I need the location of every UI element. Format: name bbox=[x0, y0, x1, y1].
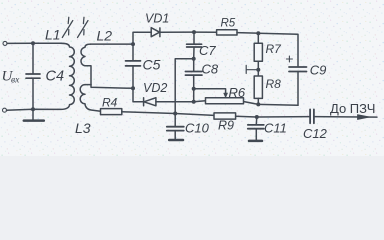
terminal bottom-left bbox=[3, 108, 7, 112]
capacitor C5 bbox=[132, 44, 134, 60]
rail R9 to C11 node bbox=[236, 115, 257, 118]
terminal top-left bbox=[3, 41, 7, 45]
junction R8 bottom / R6 right / C9 bottom bbox=[256, 102, 260, 106]
wire bottom input bbox=[7, 109, 59, 110]
output wire with arrow bbox=[314, 116, 377, 119]
junction VD2 cathode wire / R6 left bbox=[192, 100, 196, 104]
junction L2 top / C5 / VD1 bbox=[131, 42, 135, 46]
resistor R9 bbox=[214, 113, 236, 119]
svg-text:C11: C11 bbox=[264, 120, 287, 135]
svg-text:VD2: VD2 bbox=[143, 81, 167, 95]
tuning arrow 1 bbox=[62, 17, 73, 37]
junction C4 bottom / ground rail bbox=[31, 107, 35, 111]
wire L2 top to node bbox=[91, 43, 134, 45]
junction C7 / C8 midpoint bbox=[192, 57, 196, 61]
svg-text:R5: R5 bbox=[221, 18, 236, 30]
wire VD2 anode to node bbox=[156, 101, 194, 103]
inductor L3 bbox=[80, 85, 100, 112]
junction bottom rail / C11 bbox=[255, 115, 259, 119]
potentiometer R6 bbox=[206, 98, 244, 104]
junction C4 top / input rail bbox=[31, 41, 35, 45]
svg-text:R7: R7 bbox=[266, 42, 283, 56]
diode VD2 bbox=[143, 98, 145, 106]
wire top input bbox=[7, 42, 60, 44]
ground under C10 bbox=[169, 139, 183, 142]
resistor R7 bbox=[257, 33, 259, 43]
capacitor C11 bbox=[255, 117, 258, 124]
svg-text:L3: L3 bbox=[75, 120, 91, 136]
svg-text:C8: C8 bbox=[202, 62, 219, 77]
resistor R4 bbox=[101, 109, 122, 115]
bottom rail R4 to C10 node bbox=[122, 112, 175, 114]
wire C5 node down to VD2 bbox=[133, 88, 144, 102]
svg-text:C10: C10 bbox=[185, 120, 210, 135]
diode VD1 bbox=[151, 28, 159, 37]
svg-text:L1: L1 bbox=[45, 27, 61, 43]
svg-text:C5: C5 bbox=[143, 57, 161, 73]
junction VD1 cathode / C7 top / R5 left bbox=[192, 30, 196, 34]
inductor L1 bbox=[58, 43, 74, 109]
wire C7/C8 node left and down bbox=[175, 59, 194, 114]
ground bbox=[32, 109, 34, 119]
tuning arrow 2 bbox=[78, 17, 89, 37]
svg-text:R8: R8 bbox=[266, 77, 282, 91]
resistor R5 bbox=[217, 30, 237, 35]
resistor R8 bbox=[254, 76, 262, 98]
stub with bar at R7/R8 node bbox=[246, 65, 258, 73]
junction R5 right / R7 top bbox=[256, 31, 260, 35]
capacitor C7 bbox=[193, 32, 195, 43]
wire L3 top tap bbox=[85, 84, 91, 86]
svg-text:R6: R6 bbox=[229, 85, 246, 100]
wire to R6 right bbox=[244, 102, 258, 105]
capacitor C12 bbox=[310, 109, 314, 123]
svg-text:R9: R9 bbox=[218, 119, 234, 133]
wire VD1 to C7 node bbox=[160, 31, 217, 33]
capacitor C4 bbox=[32, 43, 34, 73]
wire to R6 wiper bbox=[194, 89, 226, 94]
svg-text:C9: C9 bbox=[310, 62, 327, 77]
paper background bbox=[0, 0, 384, 156]
bottom rail C10 node to R9 bbox=[175, 114, 214, 116]
svg-text:C7: C7 bbox=[199, 43, 216, 58]
junction R7 / R8 midpoint bbox=[256, 68, 260, 72]
svg-text:вх: вх bbox=[11, 76, 20, 86]
svg-text:VD1: VD1 bbox=[145, 12, 169, 26]
wire node up to VD1 bbox=[133, 32, 151, 44]
junction C8 bottom / R6 wiper wire bbox=[192, 87, 196, 91]
svg-text:C12: C12 bbox=[303, 126, 328, 141]
capacitor C8 bbox=[193, 59, 195, 71]
junction bottom rail / C10 bbox=[173, 112, 177, 116]
svg-text:R4: R4 bbox=[102, 96, 118, 110]
wire VD2 node to R6 left bbox=[194, 100, 206, 103]
svg-text:До ПЗЧ: До ПЗЧ bbox=[330, 101, 375, 116]
junction C5 bottom / coil tap / VD2 bbox=[131, 86, 135, 90]
ground under C11 bbox=[249, 140, 262, 143]
wire R5 to R7 node bbox=[237, 32, 258, 35]
wire C9 bottom to R8 bottom node bbox=[258, 103, 298, 106]
wire C8 bottom down bbox=[193, 89, 195, 102]
wire R7 node to C9 bbox=[258, 33, 298, 66]
svg-text:C4: C4 bbox=[46, 69, 65, 85]
rail C11 node to C12 bbox=[257, 116, 310, 118]
capacitor C10 bbox=[174, 114, 176, 127]
wire L2 tap bbox=[85, 66, 133, 89]
capacitor C9 polarized bbox=[289, 67, 307, 72]
svg-text:L2: L2 bbox=[97, 28, 113, 44]
inductor L2 bbox=[81, 44, 91, 66]
